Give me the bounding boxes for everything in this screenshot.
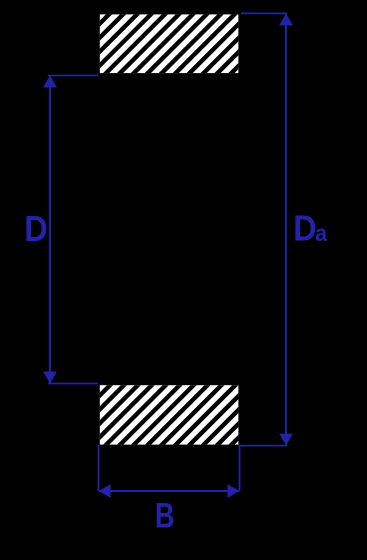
dimension D: extension line top xyxy=(48,75,98,77)
dimension Da: extension line bottom xyxy=(238,445,287,447)
svg-text:B: B xyxy=(155,495,175,535)
dimension B: extension line right xyxy=(239,445,241,492)
dimension D: arrowhead down xyxy=(43,372,57,384)
dimension B: arrowhead right xyxy=(228,484,240,498)
dimension B: arrowhead left xyxy=(99,484,111,498)
dimension D: extension line bottom xyxy=(48,383,98,385)
dimension Da: extension line top xyxy=(241,12,287,14)
dimension B: extension line left xyxy=(98,445,100,491)
dimension D: arrowhead up xyxy=(43,76,57,88)
svg-text:D: D xyxy=(24,209,47,249)
dimension D: dimension line xyxy=(49,76,51,383)
dimension B: dimension line xyxy=(99,490,239,492)
dimension Da: arrowhead down xyxy=(279,434,293,446)
bearing ring cross-section, bottom (hatched rectangle) xyxy=(30,379,311,451)
dimension Da: arrowhead up xyxy=(279,13,293,25)
dimension Da: dimension line xyxy=(285,14,287,445)
svg-text:a: a xyxy=(315,220,327,246)
svg-text:D: D xyxy=(293,209,316,249)
bearing ring cross-section, top (hatched rectangle) xyxy=(30,8,311,80)
